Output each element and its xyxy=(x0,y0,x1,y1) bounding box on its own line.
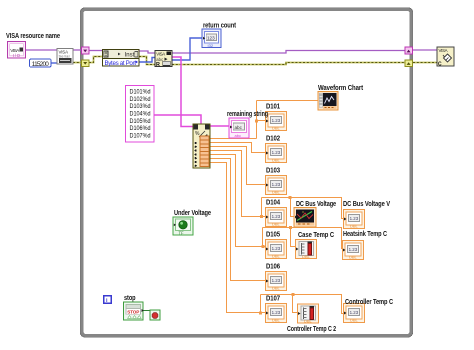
svg-text:D106%d: D106%d xyxy=(130,125,151,132)
svg-text:Heatsink Temp C: Heatsink Temp C xyxy=(343,231,387,238)
svg-text:Bytes at Port: Bytes at Port xyxy=(105,60,137,67)
svg-text:Controller Temp C: Controller Temp C xyxy=(345,299,393,306)
svg-text:TF: TF xyxy=(179,231,185,236)
svg-text:Under Voltage: Under Voltage xyxy=(174,210,211,217)
svg-text:D105: D105 xyxy=(266,232,280,239)
svg-text:Controller Temp C 2: Controller Temp C 2 xyxy=(287,326,336,333)
svg-text:D102%d: D102%d xyxy=(130,96,151,103)
svg-text:DC Bus Voltage: DC Bus Voltage xyxy=(296,201,336,208)
svg-text:D103: D103 xyxy=(266,168,280,175)
svg-text:D103%d: D103%d xyxy=(130,103,151,110)
svg-text:D107%d: D107%d xyxy=(130,132,151,139)
svg-text:D102: D102 xyxy=(266,136,280,143)
svg-text:I32: I32 xyxy=(208,43,214,48)
svg-text:R: R xyxy=(156,62,160,68)
svg-text:STOP: STOP xyxy=(127,309,139,314)
svg-text:115200: 115200 xyxy=(32,61,49,68)
svg-text:D107: D107 xyxy=(266,296,280,303)
svg-text:return count: return count xyxy=(203,23,237,30)
svg-text:DC Bus Voltage V: DC Bus Voltage V xyxy=(343,201,390,208)
svg-text:abc: abc xyxy=(235,133,241,138)
svg-text:VISA: VISA xyxy=(439,48,448,53)
svg-text:Waveform Chart: Waveform Chart xyxy=(318,85,364,92)
svg-text:D101%d: D101%d xyxy=(130,89,151,96)
svg-text:remaining string: remaining string xyxy=(227,111,268,118)
svg-text:VISA resource name: VISA resource name xyxy=(6,33,60,40)
svg-text:Case Temp C: Case Temp C xyxy=(298,232,334,239)
svg-text:D101: D101 xyxy=(266,104,280,111)
svg-text:stop: stop xyxy=(124,295,136,302)
svg-text:123: 123 xyxy=(207,35,215,40)
svg-text:%: % xyxy=(195,131,200,137)
svg-text:D104: D104 xyxy=(266,200,280,207)
svg-text:I/O: I/O xyxy=(13,53,21,58)
svg-text:D104%d: D104%d xyxy=(130,111,151,118)
svg-text:D105%d: D105%d xyxy=(130,118,151,125)
svg-text:abc: abc xyxy=(235,125,243,130)
svg-text:D106: D106 xyxy=(266,264,280,271)
svg-text:Serial: Serial xyxy=(59,54,70,58)
svg-text:C: C xyxy=(438,61,442,67)
